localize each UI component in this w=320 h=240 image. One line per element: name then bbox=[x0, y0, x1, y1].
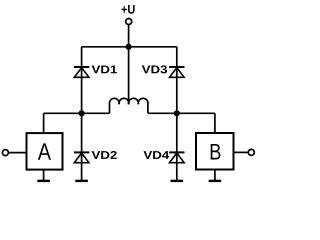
terminal B output bbox=[248, 149, 254, 155]
inductor (center-tapped choke) bbox=[109, 98, 148, 113]
terminal +U bbox=[126, 19, 132, 25]
wire down to block A bbox=[43, 113, 45, 133]
diode VD2 bbox=[74, 152, 89, 162]
wire left branch bbox=[81, 47, 83, 181]
wire top rail bbox=[82, 46, 177, 48]
diode VD1 bbox=[74, 67, 89, 77]
block B box bbox=[196, 133, 234, 170]
label VD4 bbox=[143, 151, 169, 159]
wire from +U terminal to top rail bbox=[128, 25, 130, 47]
label A bbox=[38, 143, 51, 159]
label VD2 bbox=[92, 151, 117, 159]
label VD1 bbox=[92, 66, 117, 74]
wire block A to ground bbox=[43, 170, 45, 181]
ground under block A bbox=[37, 180, 50, 182]
wire center tap from top rail to inductor bbox=[128, 47, 130, 105]
wire terminal to block A bbox=[9, 152, 27, 154]
wire down to block B bbox=[214, 113, 216, 133]
diode VD3 bbox=[169, 67, 184, 77]
net +U label bbox=[121, 5, 134, 14]
junction on top rail bbox=[126, 44, 132, 50]
junction mid rail right bbox=[174, 110, 180, 116]
block A box bbox=[27, 133, 63, 170]
ground under VD2 bbox=[75, 180, 88, 182]
ground under block B bbox=[209, 180, 222, 182]
ground under VD4 bbox=[171, 180, 184, 182]
label B bbox=[211, 144, 221, 160]
terminal A input bbox=[2, 150, 8, 156]
diode VD4 bbox=[169, 152, 184, 162]
wire mid rail right segment bbox=[148, 112, 215, 114]
wire block B to terminal bbox=[234, 151, 249, 153]
junction mid rail left bbox=[79, 110, 85, 116]
label VD3 bbox=[142, 65, 167, 73]
wire right branch bbox=[176, 47, 178, 181]
wire mid rail left segment bbox=[44, 112, 110, 114]
wire block B to ground bbox=[214, 170, 216, 181]
